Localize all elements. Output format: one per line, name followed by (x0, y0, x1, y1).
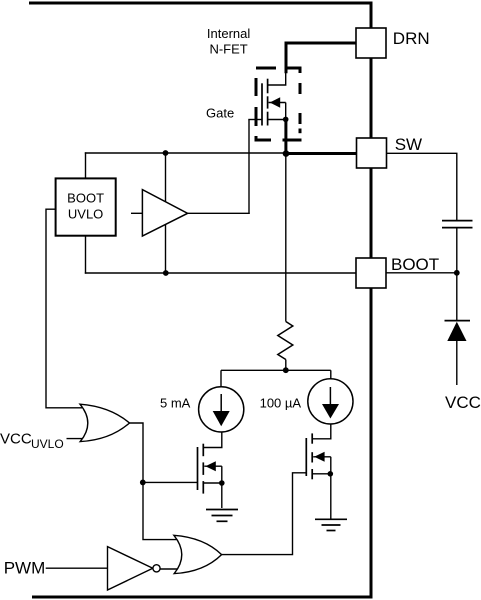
wire bottom rail to BOOT pin (85, 272, 356, 274)
wire bottom border of IC block (32, 596, 373, 599)
transistor M1 body arrow (270, 97, 280, 108)
resistor R1 zigzag (278, 322, 293, 360)
current source I1 arrow (220, 394, 222, 412)
wire right border of IC block (370, 2, 373, 599)
wire BOOT UVLO box top to top rail (85, 152, 87, 178)
transistor M1 source stub (268, 119, 286, 121)
node junction Q1 source/body (219, 480, 225, 486)
node junction resistor / rail (283, 367, 289, 373)
diode D1 triangle (447, 322, 466, 341)
wire U2 output (129, 423, 178, 540)
svg-text:SW: SW (395, 135, 422, 154)
wire buffer bottom supply (165, 213, 167, 273)
or-gate U4 (174, 535, 222, 573)
dashed box right edge (299, 67, 302, 134)
svg-text:5 mA: 5 mA (160, 395, 191, 410)
inverter U3 triangle (108, 547, 153, 590)
wire PWM to inverter U3 (46, 567, 108, 569)
wire SW junction down to resistor R1 (285, 154, 287, 322)
wire BOOT UVLO left to OR gate U2 top input (46, 209, 82, 408)
node junction Q2 source/body (328, 471, 334, 477)
wire SW pin to bootstrap capacitor (387, 153, 457, 220)
node junction U2 output / Q1 gate (140, 480, 146, 486)
dashed box around internal N-FET: top edge (256, 67, 301, 70)
transistor Q1 body arrow (205, 461, 215, 471)
wire DRN pin to M1 drain (thick) (286, 43, 356, 73)
transistor M1 channel segments (267, 79, 269, 126)
wire diode anode to VCC (456, 341, 458, 385)
node junction bottom rail / buffer supply (163, 270, 169, 276)
transistor Q2 body line (313, 456, 331, 458)
wire U4 output to Q2 gate (221, 473, 306, 555)
wire U3 output to OR gate U4 (160, 568, 178, 570)
transistor M1 drain stub (268, 72, 286, 85)
diode D1 cathode bar (445, 320, 471, 322)
transistor M1 body-source vertical (285, 103, 287, 120)
transistor Q2 body arrow (314, 452, 324, 462)
transistor Q1 source stub (203, 482, 222, 484)
wire current-source rail (221, 369, 331, 371)
buffer U1 gate driver triangle (142, 190, 187, 236)
transistor Q1 gate bar (197, 447, 199, 490)
pin SW square (357, 138, 387, 168)
svg-text:Gate: Gate (206, 106, 234, 121)
transistor Q1 channel segments (202, 444, 204, 494)
wire resistor bottom to current-source rail (285, 360, 287, 372)
svg-text:100 µA: 100 µA (260, 395, 302, 410)
transistor Q2 source/body vertical to ground (330, 457, 332, 519)
wire SW junction to SW pin (thick) (286, 152, 357, 155)
wire top rail to SW junction (85, 152, 286, 154)
or-gate U2 (80, 404, 130, 441)
transistor Q2 gate bar (305, 438, 307, 476)
pin BOOT square (356, 258, 386, 288)
wire 100uA source bottom to Q2 drain (312, 424, 331, 439)
current source I2 arrow (329, 387, 331, 405)
transistor M1 body line (269, 102, 286, 104)
pin DRN square (356, 28, 386, 58)
wire rail to 5mA source top (220, 370, 222, 387)
dashed box left edge (255, 78, 258, 141)
dashed box bottom edge (255, 139, 302, 142)
svg-text:N-FET: N-FET (209, 42, 247, 57)
svg-text:DRN: DRN (393, 29, 430, 48)
svg-text:VCC: VCC (0, 431, 32, 448)
svg-text:VCC: VCC (445, 393, 481, 412)
box BOOT UVLO (56, 178, 116, 235)
wire buffer output (187, 212, 250, 214)
current source I1 5 mA circle (199, 387, 244, 432)
inverter U3 bubble (153, 565, 160, 572)
wire M1 source to SW rail (thick) (284, 119, 287, 153)
wire junction to Q1 gate (143, 481, 198, 483)
transistor Q2 channel segments (311, 433, 313, 479)
svg-text:Internal: Internal (207, 26, 250, 41)
wire VCCUVLO to OR gate U2 bottom input (67, 438, 85, 440)
svg-text:BOOT: BOOT (67, 190, 104, 205)
svg-text:UVLO: UVLO (31, 437, 64, 451)
transistor Q1 body line (204, 465, 222, 467)
node junction M1 source/body (283, 117, 289, 123)
wire rail to 100uA source top (330, 370, 332, 379)
transistor Q1 source/body vertical to ground (221, 466, 223, 508)
wire gate lead M1 (248, 119, 262, 121)
transistor Q2 source stub (312, 473, 331, 475)
wire BOOT pin to BOOT node (386, 272, 457, 274)
svg-text:BOOT: BOOT (391, 255, 439, 274)
wire top border of IC block (29, 2, 373, 5)
current source I2 100 uA circle (308, 379, 353, 424)
svg-text:UVLO: UVLO (68, 207, 103, 222)
capacitor C1 plates (442, 220, 473, 222)
svg-text:PWM: PWM (4, 559, 46, 578)
node junction top rail / buffer supply (163, 150, 169, 156)
node junction BOOT net (454, 270, 460, 276)
wire capacitor to BOOT node (456, 229, 458, 321)
wire buffer top supply (165, 153, 167, 213)
transistor M1 internal N-FET: gate bar (261, 83, 263, 125)
wire BOOT UVLO box bottom to bottom rail (85, 236, 87, 274)
node junction SW rail (283, 150, 290, 157)
wire buffer output to gate of internal N-FET (248, 120, 250, 215)
ground GND1 (206, 510, 238, 522)
wire buffer input stub (131, 212, 143, 214)
wire 5mA source bottom to Q1 drain (203, 432, 222, 448)
ground GND2 (315, 519, 347, 530)
